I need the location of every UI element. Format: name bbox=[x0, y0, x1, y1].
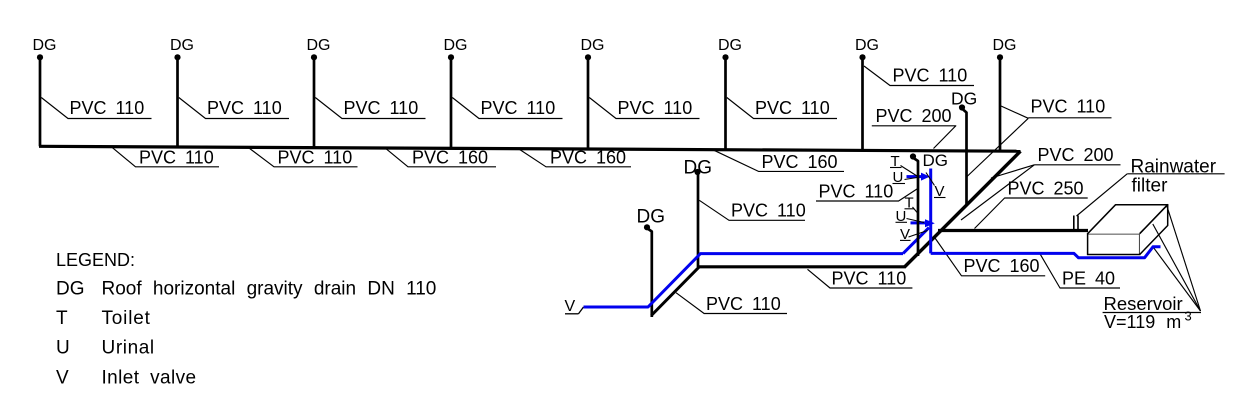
wire DG downpipe column 8 bbox=[999, 59, 1002, 151]
leader PVC 110 label column 7 bbox=[864, 66, 974, 86]
leader PVC 110 soil stack bbox=[816, 188, 919, 201]
wire main roof drain horizontal PVC run bbox=[39, 146, 1021, 151]
wire blue run to reservoir bbox=[931, 247, 1161, 258]
leader PVC 110 label column 2 bbox=[179, 98, 289, 119]
reservoir box right face bbox=[1140, 205, 1168, 255]
wire DG lowest drop bbox=[648, 229, 652, 318]
svg-text:PVC 110: PVC 110 bbox=[819, 181, 894, 201]
wire PVC 250 horizontal run to filter bbox=[938, 229, 1088, 232]
svg-text:PVC 110: PVC 110 bbox=[706, 294, 781, 314]
wire blue riser at cluster bbox=[929, 169, 932, 254]
svg-text:filter: filter bbox=[1132, 175, 1169, 196]
svg-text:PVC 110: PVC 110 bbox=[139, 147, 214, 167]
svg-text:Urinal: Urinal bbox=[102, 338, 155, 359]
wire DG downpipe column 6 bbox=[724, 59, 727, 150]
node DG dot column 8 bbox=[997, 54, 1003, 60]
svg-text:PVC 160: PVC 160 bbox=[762, 152, 838, 172]
svg-text:PVC 200: PVC 200 bbox=[1038, 145, 1114, 165]
node DG dot column 7 bbox=[859, 54, 865, 60]
label T upper underline bbox=[890, 167, 902, 169]
wire lower-left isometric diagonal bbox=[651, 267, 699, 315]
svg-text:PVC 110: PVC 110 bbox=[618, 98, 693, 118]
svg-text:DG: DG bbox=[684, 158, 713, 179]
svg-text:DG: DG bbox=[951, 88, 977, 108]
svg-text:PVC 200: PVC 200 bbox=[876, 106, 952, 126]
wire blue supply main bbox=[584, 254, 904, 307]
svg-text:PVC 110: PVC 110 bbox=[731, 201, 806, 221]
svg-text:V: V bbox=[565, 298, 576, 315]
wire DG downpipe column 1 bbox=[39, 59, 42, 146]
label Rainwater filter underline bbox=[1127, 173, 1224, 175]
leader PVC 110 label below main bay 2 bbox=[249, 148, 358, 167]
node DG dot column 3 bbox=[311, 54, 317, 60]
wire DG drop to diagonal bbox=[963, 109, 967, 206]
svg-text:DG: DG bbox=[307, 37, 331, 54]
node DG dot column 1 bbox=[37, 54, 43, 60]
leader Rainwater filter bbox=[1077, 174, 1128, 216]
wire DG downpipe column 2 bbox=[176, 59, 179, 147]
svg-text:PVC 160: PVC 160 bbox=[550, 147, 626, 167]
label V upper underline bbox=[934, 197, 946, 199]
svg-text:PVC 110: PVC 110 bbox=[278, 147, 353, 167]
leader PVC 160 label below main bay 4 bbox=[520, 149, 632, 166]
node DG dot column 5 bbox=[585, 54, 591, 60]
svg-text:Reservoir: Reservoir bbox=[1104, 293, 1183, 314]
leader PE 40 bbox=[1040, 254, 1120, 288]
svg-text:PVC 110: PVC 110 bbox=[344, 98, 419, 118]
leader U upper bbox=[905, 178, 918, 180]
label Reservoir underline bbox=[1103, 312, 1201, 314]
svg-text:DG: DG bbox=[855, 37, 879, 54]
leader PVC 110 label below main bay 1 bbox=[112, 147, 219, 167]
label U upper underline bbox=[893, 183, 906, 185]
leader PVC 110 label column 1 bbox=[41, 98, 151, 119]
svg-text:DG: DG bbox=[444, 37, 468, 54]
label V underline + tick bbox=[565, 313, 579, 315]
leader PVC 110 lowest bbox=[676, 293, 787, 314]
svg-text:PVC 110: PVC 110 bbox=[755, 98, 830, 118]
leader PVC 160 label below main bay 3 bbox=[386, 149, 496, 167]
svg-text:PVC 250: PVC 250 bbox=[1008, 178, 1084, 198]
svg-text:DG: DG bbox=[56, 279, 85, 300]
valve arrow lower bbox=[911, 221, 926, 224]
svg-text:DG: DG bbox=[581, 37, 605, 54]
svg-text:PVC 110: PVC 110 bbox=[832, 268, 907, 288]
leader T lower bbox=[913, 207, 919, 214]
svg-text:PVC 110: PVC 110 bbox=[207, 98, 282, 118]
leader PVC 200 left bbox=[872, 126, 956, 149]
svg-text:LEGEND:: LEGEND: bbox=[56, 250, 135, 270]
leader PVC 200 right a bbox=[991, 165, 1034, 178]
leader PVC 110 label column 8 underline bbox=[1028, 117, 1111, 119]
rainwater filter stub bbox=[1073, 216, 1075, 230]
node DG dot drop left of lower run bbox=[694, 169, 700, 175]
node DG dot column 4 bbox=[448, 54, 454, 60]
leader PVC 110 drop label bbox=[699, 200, 805, 220]
svg-text:PVC 110: PVC 110 bbox=[1031, 97, 1106, 117]
svg-text:DG: DG bbox=[923, 151, 949, 170]
svg-text:T: T bbox=[56, 308, 68, 329]
svg-text:V=119 m: V=119 m bbox=[1104, 312, 1181, 332]
wire DG downpipe column 4 bbox=[450, 59, 453, 148]
node DG dot drop at diagonal bbox=[959, 104, 965, 110]
svg-text:PVC 110: PVC 110 bbox=[481, 98, 556, 118]
svg-text:DG: DG bbox=[718, 37, 742, 54]
leader V upper bbox=[926, 173, 935, 186]
svg-text:PVC 160: PVC 160 bbox=[412, 147, 488, 167]
leader PVC 110 lower run bbox=[808, 269, 913, 288]
svg-text:PVC 160: PVC 160 bbox=[964, 256, 1040, 276]
svg-text:U: U bbox=[56, 338, 70, 359]
svg-text:DG: DG bbox=[33, 37, 57, 54]
wire DG drop left of lower run bbox=[697, 174, 700, 268]
svg-text:PE 40: PE 40 bbox=[1062, 268, 1115, 288]
reservoir box top face bbox=[1088, 205, 1168, 234]
leader PVC 200 right underline bbox=[1034, 164, 1120, 166]
svg-text:DG: DG bbox=[637, 206, 666, 227]
wire main isometric down diagonal bbox=[905, 151, 1021, 267]
leader PVC 110 label column 6 bbox=[727, 98, 837, 119]
node DG dot column 6 bbox=[722, 54, 728, 60]
wire lower horizontal PVC 110 run bbox=[699, 265, 906, 268]
leader PVC 200 right b bbox=[961, 165, 1034, 220]
svg-text:3: 3 bbox=[1185, 308, 1192, 323]
node DG dot lowest drop bbox=[644, 224, 650, 230]
svg-text:V: V bbox=[56, 367, 69, 388]
leader PVC 110 label column 5 bbox=[589, 98, 699, 119]
wire DG downpipe column 3 bbox=[313, 59, 316, 148]
node DG dot cluster stack bbox=[910, 153, 916, 159]
leader U lower bbox=[907, 219, 925, 223]
svg-text:DG: DG bbox=[993, 37, 1017, 54]
leader PVC 160 label below main bay 5 bbox=[713, 150, 844, 172]
label U lower underline bbox=[896, 221, 908, 223]
label T lower underline bbox=[905, 208, 915, 210]
leader PVC 110 label column 3 bbox=[315, 98, 425, 119]
svg-text:PVC 110: PVC 110 bbox=[70, 98, 145, 118]
leader PVC 110 label column 8 upper bbox=[1001, 106, 1028, 118]
valve arrow upper bbox=[907, 175, 922, 178]
node DG dot column 2 bbox=[174, 54, 180, 60]
svg-text:Toilet: Toilet bbox=[102, 308, 151, 329]
leader T upper bbox=[901, 166, 918, 177]
wire DG cluster soil stack bbox=[914, 158, 919, 256]
leader PVC 160 bottom bbox=[935, 238, 1045, 276]
leader Reservoir fan bbox=[1167, 206, 1201, 311]
wire DG downpipe column 7 bbox=[861, 59, 864, 150]
svg-text:DG: DG bbox=[170, 37, 194, 54]
svg-text:PVC 110: PVC 110 bbox=[893, 65, 968, 85]
leader V lower bbox=[909, 231, 928, 238]
wire blue branch diagonal to valve bbox=[903, 228, 929, 254]
svg-text:Rainwater: Rainwater bbox=[1131, 156, 1217, 177]
leader PVC 110 label column 4 bbox=[452, 98, 562, 119]
wire DG downpipe column 5 bbox=[587, 59, 590, 149]
svg-text:Inlet valve: Inlet valve bbox=[102, 367, 197, 388]
label V lower underline bbox=[900, 239, 911, 241]
leader PVC 110 label column 8 lower bbox=[967, 118, 1029, 177]
svg-text:Roof horizontal gravity drain: Roof horizontal gravity drain DN 110 bbox=[102, 279, 437, 300]
leader PVC 250 bbox=[975, 198, 1088, 229]
reservoir box front face bbox=[1088, 234, 1140, 255]
